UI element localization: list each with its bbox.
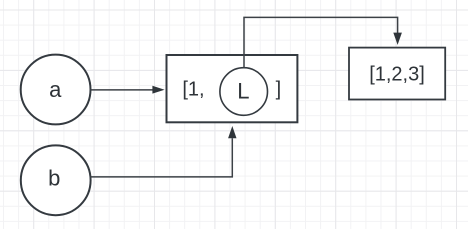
list rect [167,55,298,122]
wire b to list-rect bottom [91,126,237,177]
svg-text:L: L [237,78,249,103]
circle a [21,55,91,125]
svg-text:b: b [48,166,60,191]
svg-text:[1,2,3]: [1,2,3] [369,63,425,85]
svg-text:a: a [49,77,62,102]
svg-text:[1,: [1, [182,79,204,101]
wire L-circle to result-rect [244,17,402,67]
svg-text:]: ] [276,79,282,101]
circle L inside rect [220,68,268,116]
result rect [349,48,445,100]
circle b [21,145,91,215]
wire a to list-rect [91,86,165,94]
